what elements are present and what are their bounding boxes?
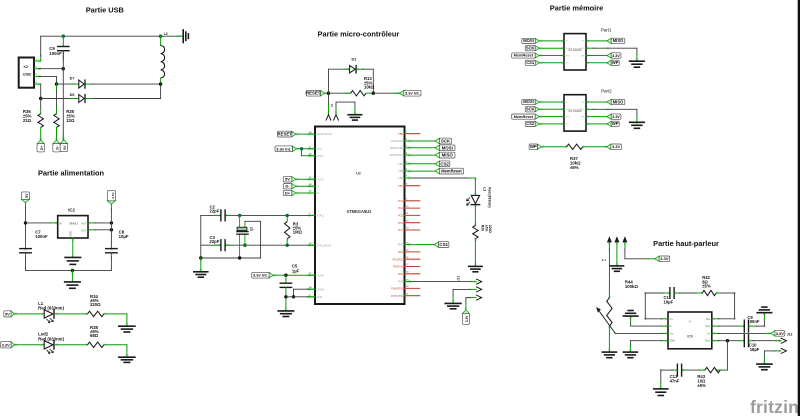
svg-text:OUT: OUT <box>81 229 87 233</box>
wire <box>56 76 58 84</box>
svg-text:PD1: PD1 <box>398 250 404 254</box>
wire <box>586 40 607 42</box>
resistor R37 <box>567 144 583 170</box>
node L2 top junction <box>159 35 162 38</box>
svg-text:MemReset: MemReset <box>441 169 462 174</box>
ground <box>65 270 81 288</box>
wire <box>586 109 637 122</box>
net label WP <box>607 60 619 65</box>
net label 3.3v int. <box>400 90 421 96</box>
wire <box>539 116 564 118</box>
svg-text:MemReset: MemReset <box>514 53 534 58</box>
LED L3 <box>467 187 492 207</box>
wire <box>201 257 261 259</box>
svg-text:CS1: CS1 <box>526 60 535 65</box>
wire X2 pin2 <box>34 68 63 70</box>
net label 3.3v int. <box>275 146 297 152</box>
wire <box>244 221 246 245</box>
svg-text:IN: IN <box>59 221 62 225</box>
resistor R38 <box>88 325 104 348</box>
svg-text:PC4: PC4 <box>398 206 404 210</box>
wire <box>712 332 771 334</box>
connector J1 <box>326 93 355 120</box>
svg-text:OUT: OUT <box>81 221 87 225</box>
ground <box>119 326 135 332</box>
svg-text:J12: J12 <box>787 332 793 336</box>
svg-text:CS2: CS2 <box>440 161 449 166</box>
net label 5V <box>283 177 296 182</box>
svg-text:MOSI: MOSI <box>442 145 453 150</box>
svg-text:XTAL1: XTAL1 <box>317 214 325 218</box>
net label D+ <box>37 140 44 152</box>
net label MOSI <box>522 99 540 104</box>
svg-text:Part2: Part2 <box>601 88 612 93</box>
svg-text:RST: RST <box>566 55 571 57</box>
wire X2 pin4 <box>34 83 41 85</box>
node L2 bottom junction <box>159 82 162 85</box>
svg-text:MOSI: MOSI <box>523 38 533 43</box>
U2 right pins <box>390 131 420 297</box>
wire <box>40 84 42 98</box>
amplifier IC6 <box>668 312 712 349</box>
svg-text:100nF: 100nF <box>35 234 48 239</box>
wire <box>586 48 637 61</box>
capacitor C10 <box>744 335 759 352</box>
wire XTAL2 <box>201 244 315 246</box>
wire <box>357 69 374 93</box>
resistor R36 <box>23 109 44 140</box>
wire <box>539 55 564 57</box>
wire <box>661 370 677 388</box>
svg-text:3.3V: 3.3V <box>111 191 115 198</box>
IC U2 ATMEGA8U2 <box>315 127 405 305</box>
wire <box>104 314 127 326</box>
wire <box>273 274 315 276</box>
svg-text:Gain: Gain <box>705 340 711 343</box>
diode D1 <box>350 57 357 73</box>
svg-text:PD5: PD5 <box>398 280 404 284</box>
wire <box>625 242 655 258</box>
wire <box>608 326 610 352</box>
svg-text:D-: D- <box>317 184 320 188</box>
resistor R35 <box>54 84 75 140</box>
wire <box>296 178 315 180</box>
node <box>726 339 729 342</box>
wire <box>296 192 315 194</box>
svg-text:PB0: PB0 <box>398 132 403 136</box>
wire <box>453 289 476 303</box>
connector X2 USB <box>19 58 38 88</box>
diode D7 <box>70 76 85 88</box>
wire <box>539 123 564 125</box>
ground <box>194 258 208 277</box>
svg-text:100nF: 100nF <box>49 51 62 56</box>
net label MOSI <box>522 38 540 43</box>
svg-text:3.3V: 3.3V <box>465 315 469 322</box>
svg-text:9-1: 9-1 <box>602 258 607 262</box>
svg-text:5V: 5V <box>5 312 10 317</box>
svg-text:PD4: PD4 <box>398 272 404 276</box>
net label 5V <box>21 192 29 203</box>
net label CS2 <box>435 161 450 167</box>
wire <box>674 292 702 294</box>
wire <box>764 351 780 364</box>
svg-text:WP: WP <box>581 55 585 57</box>
wire <box>616 242 618 265</box>
svg-text:WP: WP <box>581 116 585 118</box>
svg-text:Out: Out <box>706 318 710 321</box>
net label 3.3V <box>607 53 621 58</box>
svg-text:5V: 5V <box>25 193 29 198</box>
wire <box>712 318 735 320</box>
svg-text:3.3V: 3.3V <box>612 115 620 119</box>
wire <box>716 341 727 370</box>
wire <box>56 313 88 315</box>
svg-text:Partie mémoire: Partie mémoire <box>550 4 603 13</box>
net label 3.3V <box>0 342 14 348</box>
svg-text:68Ω: 68Ω <box>90 333 99 338</box>
node <box>199 256 202 259</box>
net label SCK <box>435 138 451 144</box>
U2 left pins <box>308 131 332 299</box>
svg-text:D6: D6 <box>70 93 75 97</box>
net label 3.3V <box>607 144 622 150</box>
svg-text:100nF: 100nF <box>747 319 760 324</box>
wire XTAL1 <box>201 214 315 216</box>
ground <box>119 357 135 362</box>
svg-text:10kΩ: 10kΩ <box>364 85 375 90</box>
capacitor C8 <box>106 230 129 253</box>
wire <box>86 83 161 85</box>
svg-text:3.3v int.: 3.3v int. <box>276 146 291 151</box>
resistor R42 <box>702 275 716 296</box>
svg-text:D+: D+ <box>317 191 321 195</box>
net label SCK <box>525 45 539 50</box>
net label MISO <box>435 152 455 158</box>
svg-text:PB2(MOSI): PB2(MOSI) <box>390 146 403 150</box>
label J12 <box>787 332 793 336</box>
wire OUT1 <box>88 222 111 224</box>
wire <box>712 325 744 327</box>
capacitor C2 <box>210 204 226 221</box>
wire <box>104 345 127 357</box>
svg-text:PB6: PB6 <box>398 176 403 180</box>
svg-text:SCK: SCK <box>566 109 571 111</box>
svg-text:PB5: PB5 <box>398 169 403 173</box>
wire <box>586 55 607 57</box>
ground <box>630 122 645 128</box>
wire <box>405 281 477 283</box>
svg-text:GND: GND <box>670 340 676 343</box>
svg-text:R39: R39 <box>481 225 485 231</box>
wire <box>539 62 564 64</box>
wire <box>405 147 436 149</box>
svg-text:Partie USB: Partie USB <box>86 6 124 15</box>
wire <box>630 341 668 352</box>
wire <box>296 185 315 187</box>
net label WP <box>607 121 619 126</box>
net label 3.3V <box>462 310 469 325</box>
svg-text:U2: U2 <box>356 172 361 176</box>
label Part1 <box>601 27 612 32</box>
net label 3.3v <box>107 190 115 204</box>
svg-text:D-: D- <box>56 146 60 150</box>
wire X2 pin1 <box>34 60 41 62</box>
wire UGND <box>294 289 316 297</box>
svg-text:AVCC: AVCC <box>317 154 324 158</box>
svg-text:J13: J13 <box>456 275 460 281</box>
svg-text:USB: USB <box>23 72 32 77</box>
capacitor C3 <box>210 235 226 251</box>
svg-text:SCK: SCK <box>566 48 571 50</box>
section title Partie haut-parleur <box>653 239 719 248</box>
wire <box>712 340 744 342</box>
wire <box>329 69 350 93</box>
wire <box>297 148 315 150</box>
wire <box>542 146 567 148</box>
svg-text:PB7: PB7 <box>398 184 403 188</box>
svg-text:D+: D+ <box>40 146 44 150</box>
svg-text:WP: WP <box>612 121 619 126</box>
svg-text:PC7: PC7 <box>398 228 404 232</box>
svg-text:3.3V: 3.3V <box>776 331 785 336</box>
wire <box>405 140 436 142</box>
svg-text:22pF: 22pF <box>210 209 220 214</box>
wire <box>245 221 261 258</box>
svg-text:Part1: Part1 <box>601 27 612 32</box>
svg-text:SO: SO <box>581 41 584 43</box>
svg-text:CS2: CS2 <box>526 121 535 126</box>
wire <box>325 92 329 94</box>
svg-text:Partie micro-contrôleur: Partie micro-contrôleur <box>318 29 400 38</box>
node <box>286 214 289 217</box>
resistor R43 <box>697 367 720 388</box>
wire <box>110 204 112 270</box>
LED L1 <box>38 301 64 323</box>
wire <box>474 206 476 226</box>
svg-text:Red (633nm): Red (633nm) <box>488 187 492 207</box>
node <box>238 256 241 259</box>
net label 3.3V <box>771 331 785 337</box>
net label CS1 <box>525 60 539 65</box>
resistor R34 <box>88 294 104 317</box>
net label RESET <box>306 90 325 96</box>
svg-text:MISO: MISO <box>613 38 624 43</box>
wire <box>405 244 435 246</box>
svg-text:VCC: VCC <box>580 48 585 50</box>
potentiometer R44 <box>596 279 638 333</box>
net label MemReset <box>512 53 540 58</box>
svg-text:22Ω: 22Ω <box>66 118 75 123</box>
svg-text:22Ω: 22Ω <box>23 118 32 123</box>
wire <box>749 340 781 342</box>
LED Led2 <box>38 332 64 354</box>
svg-text:IC2: IC2 <box>68 208 75 213</box>
net label RESET <box>277 131 296 137</box>
wire <box>586 101 607 103</box>
wire <box>539 40 564 42</box>
svg-text:CS1: CS1 <box>439 242 448 247</box>
svg-text:3.3V: 3.3V <box>2 342 10 347</box>
net label CS1 <box>434 242 449 248</box>
svg-text:WP: WP <box>612 60 619 65</box>
net label 3.3V <box>655 256 670 262</box>
wire X2 pin3 <box>34 75 57 77</box>
svg-text:10µF: 10µF <box>119 234 129 239</box>
voltage regulator IC2 <box>58 208 88 238</box>
wire <box>586 116 607 118</box>
svg-text:Red (633nm): Red (633nm) <box>38 336 64 341</box>
svg-text:RESET: RESET <box>277 132 292 137</box>
node <box>292 295 295 298</box>
svg-text:CS: CS <box>566 124 570 126</box>
wire <box>405 163 436 165</box>
net label MemReset <box>512 114 540 119</box>
net label D- <box>53 140 60 152</box>
svg-text:3.3v int.: 3.3v int. <box>253 273 268 278</box>
svg-text:WP: WP <box>530 144 537 149</box>
svg-text:PC6: PC6 <box>398 221 404 225</box>
node <box>71 269 74 272</box>
connector J13 <box>456 275 481 300</box>
svg-text:VCC: VCC <box>580 109 585 111</box>
svg-text:SCK: SCK <box>441 138 451 143</box>
wire <box>239 215 241 258</box>
ground <box>610 266 623 271</box>
svg-text:RESET(PC1): RESET(PC1) <box>317 132 333 136</box>
svg-text:PD3(TX): PD3(TX) <box>393 265 403 269</box>
wire <box>86 98 161 100</box>
svg-text:3.3V: 3.3V <box>612 54 620 58</box>
net label 5V <box>4 311 15 317</box>
svg-text:PB4: PB4 <box>398 162 403 166</box>
svg-text:5V: 5V <box>63 145 67 150</box>
capacitor C5 <box>280 264 299 311</box>
node <box>300 147 303 150</box>
wire <box>296 133 315 135</box>
svg-text:In+: In+ <box>670 318 674 321</box>
wire <box>539 101 564 103</box>
net label 3.3v int. <box>252 272 274 278</box>
wire <box>608 242 610 297</box>
connector pins <box>602 236 628 262</box>
wire <box>405 178 476 195</box>
svg-text:UVCC: UVCC <box>317 177 324 181</box>
node <box>284 274 287 277</box>
wire <box>26 269 112 271</box>
svg-text:Red (633nm): Red (633nm) <box>38 305 64 310</box>
svg-text:Q2: Q2 <box>249 227 253 231</box>
resistor R39 <box>473 225 492 239</box>
svg-text:PB3(MISO): PB3(MISO) <box>390 153 403 157</box>
ground <box>623 352 637 358</box>
wire <box>682 369 705 371</box>
node C6 top junction <box>62 35 65 38</box>
node D7 junction <box>55 82 58 85</box>
section title Partie alimentation <box>38 168 105 177</box>
svg-text:78A0J: 78A0J <box>69 221 78 225</box>
svg-text:CS: CS <box>566 63 570 65</box>
wire <box>539 108 564 110</box>
node pin2/C6 junction <box>62 67 65 70</box>
svg-text:Partie alimentation: Partie alimentation <box>38 168 105 177</box>
svg-text:PD7(CTS): PD7(CTS) <box>391 294 403 298</box>
wire <box>26 222 58 224</box>
wire <box>40 36 42 61</box>
ground <box>469 266 482 271</box>
svg-text:MemReset: MemReset <box>514 114 534 119</box>
svg-text:5V: 5V <box>285 177 290 182</box>
svg-text:In-: In- <box>670 325 673 328</box>
memory IC AT45DB <box>564 95 586 131</box>
wire <box>14 313 44 315</box>
svg-text:3.3v int.: 3.3v int. <box>405 91 420 96</box>
svg-text:1MΩ: 1MΩ <box>293 230 303 235</box>
net label MISO <box>607 99 625 104</box>
net label WP <box>529 144 542 150</box>
svg-text:PD0: PD0 <box>398 243 404 247</box>
svg-text:±5%: ±5% <box>570 165 579 170</box>
svg-text:RST: RST <box>566 116 571 118</box>
svg-text:±5%: ±5% <box>484 225 488 232</box>
ground <box>654 389 668 396</box>
wire <box>40 99 42 110</box>
wire <box>749 313 765 326</box>
wire <box>373 92 399 94</box>
node <box>284 295 287 298</box>
svg-text:SCK: SCK <box>526 106 535 111</box>
svg-text:PD2(RX): PD2(RX) <box>393 257 404 261</box>
diode D6 <box>70 93 85 103</box>
svg-text:PB1(SCK): PB1(SCK) <box>391 139 403 143</box>
svg-text:22pF: 22pF <box>210 239 220 244</box>
node <box>238 214 241 217</box>
wire <box>41 98 79 100</box>
capacitor C13 <box>670 364 682 383</box>
svg-text:±5%: ±5% <box>697 383 706 388</box>
node <box>110 228 113 231</box>
svg-text:fritzing: fritzing <box>750 397 800 416</box>
svg-text:GND: GND <box>69 231 73 237</box>
svg-text:220Ω: 220Ω <box>488 225 492 234</box>
wire <box>645 293 669 319</box>
node IN junction <box>24 221 27 224</box>
connector J12 <box>781 338 787 354</box>
net label D+ <box>283 190 296 195</box>
net label SCK <box>525 106 539 111</box>
svg-text:D-: D- <box>285 183 290 188</box>
net label MOSI <box>435 145 455 151</box>
ground <box>348 102 362 120</box>
wire <box>474 239 476 266</box>
svg-text:RESET: RESET <box>306 91 321 96</box>
svg-text:X2: X2 <box>23 64 29 69</box>
net label MemReset <box>435 168 463 174</box>
svg-text:PC5: PC5 <box>398 214 404 218</box>
net label MISO <box>607 38 625 43</box>
svg-text:Byp: Byp <box>706 325 711 328</box>
svg-text:GND: GND <box>317 295 323 299</box>
svg-text:ATMEGA8U2: ATMEGA8U2 <box>347 209 373 214</box>
label Part2 <box>601 88 612 93</box>
svg-text:IC6: IC6 <box>687 335 692 339</box>
wire <box>62 51 64 69</box>
net label CS2 <box>525 121 539 126</box>
ground <box>630 61 645 67</box>
svg-text:XTAL2(PC0): XTAL2(PC0) <box>317 243 332 247</box>
crystal Q2 <box>237 227 254 235</box>
ground <box>757 307 771 313</box>
